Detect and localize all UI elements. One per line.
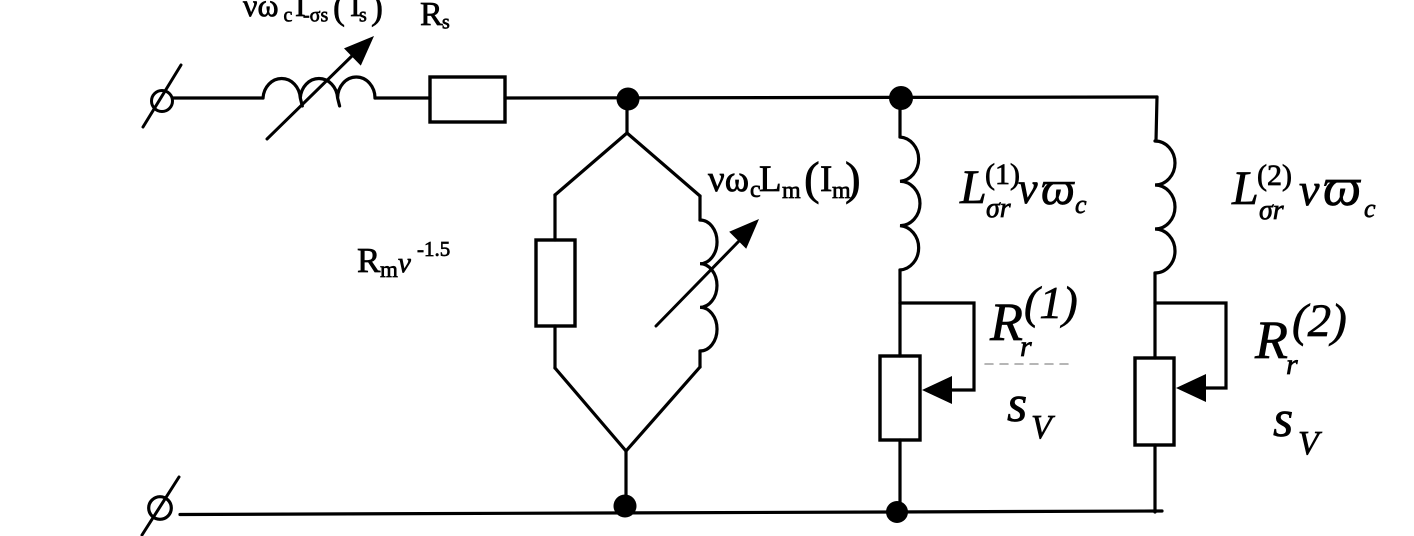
node A (stator / magnetising junction) [617,88,640,111]
node D (rotor bottom junction) [886,501,908,523]
svg-text:V: V [1031,409,1056,446]
svg-text:σr: σr [1259,195,1284,226]
wire: top-right corner down to Lσr2 [1156,97,1157,141]
wire: split to right branch (diagonal) [627,133,700,196]
label Lσr1 νϖc [959,158,1087,224]
svg-text:m: m [782,178,801,204]
rotor resistor Rr2 [1135,358,1174,445]
svg-text:s: s [442,12,450,34]
svg-text:(: ( [804,153,820,205]
svg-text:-1.5: -1.5 [417,237,450,261]
svg-text:L: L [1231,162,1259,215]
svg-text:(1): (1) [1024,277,1078,328]
svg-text:-σs: -σs [303,5,328,27]
rotor leakage inductor Lσr1 [900,137,920,270]
svg-text:νω: νω [243,0,279,23]
input terminal (top phase lead) [143,65,181,127]
label Rs [420,0,450,34]
wire: left branch down to Rm [553,195,556,240]
wire: Rs to top-right corner [505,97,1157,98]
svg-text:r: r [1286,348,1298,381]
wire: node C down to Lσr1 [898,103,901,137]
label νωc Lm(Im) [708,153,861,205]
label Rr2 [1254,295,1347,381]
svg-text:s: s [1007,376,1027,433]
output terminal (bottom phase lead) [142,477,179,535]
svg-text:V: V [1298,425,1323,462]
label Lσr2 νϖc [1231,157,1376,226]
wire: split to left branch (diagonal) [555,133,627,195]
bottom wire [180,511,1162,515]
tap arrowhead Rr1 [922,376,952,404]
wire: Rr2 to bottom wire [1153,445,1156,512]
svg-text:c: c [284,5,293,27]
tap arrowhead Rr2 [1176,374,1206,402]
node C (rotor junction 1) [889,86,913,110]
wire: terminal to stator inductor [173,96,263,99]
svg-text:ϖ: ϖ [1041,162,1075,215]
svg-text:ϖ: ϖ [1323,157,1361,217]
wire: Lm down [698,351,701,367]
svg-text:R: R [357,241,381,280]
label Rr1 [989,277,1078,363]
tap wire Rr1 [900,303,974,390]
svg-text:ν: ν [398,247,411,279]
wire: Lσs to Rs [375,96,430,99]
resistor Rs [430,77,505,122]
svg-text:I: I [820,159,832,200]
svg-text:m: m [380,257,398,282]
svg-text:c: c [1364,194,1376,223]
wire: Rm down [553,326,556,368]
svg-text:(2): (2) [1257,159,1292,192]
variable magnetising inductor Lm [700,220,717,351]
wire: right branch down to Lm [698,196,701,220]
svg-text:): ) [845,153,861,205]
svg-text:c: c [1075,190,1087,219]
arrow through Lσs (variability arrow) [267,36,374,139]
variable stator leakage inductor Lσs [263,77,375,106]
wire: left diagonal to bottom vertex [555,368,626,451]
wire: bottom vertex to node B [624,451,627,512]
wire: Lσr2 to Rr2 [1153,273,1156,358]
rotor leakage inductor Lσr2 [1155,141,1175,273]
arrow through Lm (variability arrow) [656,219,759,326]
tap wire Rr2 [1155,303,1226,388]
svg-text:r: r [1020,330,1032,363]
svg-text:L: L [959,161,987,214]
svg-text:(: ( [333,0,345,27]
svg-text:(2): (2) [1292,295,1347,347]
wire: node A down to split [625,104,628,133]
wire: Rr1 to node D [898,440,901,512]
svg-text:L: L [759,159,782,200]
svg-text:R: R [420,0,443,33]
wire: Lσr1 to Rr1 [898,270,901,356]
svg-text:ν: ν [1018,164,1038,213]
label sV 1 [1007,376,1056,446]
label νωc Iσs(Is) [243,0,383,27]
svg-text:s: s [359,5,367,27]
svg-text:): ) [371,0,383,27]
node B (magnetising bottom junction) [614,495,637,518]
label Rm v^-1.5 [357,237,450,282]
rotor resistor Rr1 [880,356,920,440]
svg-text:σr: σr [986,193,1011,224]
svg-text:ν: ν [1299,164,1320,215]
fraction bar (dashed) [985,363,1071,365]
svg-text:νω: νω [708,159,749,200]
label sV 2 [1273,391,1323,462]
svg-text:R: R [1254,310,1288,370]
svg-text:s: s [1273,391,1293,448]
wire: right diagonal to bottom vertex [626,367,700,451]
resistor Rm [536,240,575,326]
svg-text:R: R [989,292,1023,352]
svg-text:(1): (1) [985,158,1020,191]
